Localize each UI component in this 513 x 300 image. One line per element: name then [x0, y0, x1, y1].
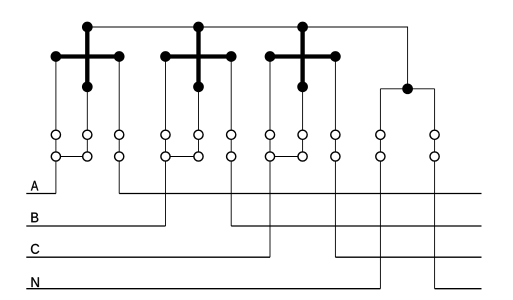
wire: voltage common rail from element tops to neutral node	[87, 27, 407, 89]
terminal: element 1 right, row 2	[115, 152, 124, 161]
wire: element 2 voltage lead	[198, 87, 200, 157]
terminal: element 3 left, row 1	[265, 130, 274, 139]
wire: element 3 left lead (phase C in)	[269, 57, 271, 258]
meter element 1 (phase A current and voltage coil cross)	[51, 22, 125, 93]
terminal: neutral right, row 1	[430, 130, 439, 139]
node label N (neutral)	[32, 277, 39, 287]
node label A (phase A)	[31, 181, 38, 191]
wire: neutral left lead (N in)	[379, 89, 381, 289]
wire: element 1 voltage lead	[86, 87, 88, 157]
terminal: neutral right, row 2	[430, 152, 439, 161]
junction: voltage common / neutral node	[402, 83, 413, 94]
terminal: element 3 middle, row 1	[298, 130, 307, 139]
terminal: element 1 middle, row 2	[83, 152, 92, 161]
wire: phase B bus (load side)	[231, 225, 481, 227]
terminal: element 2 right, row 1	[227, 130, 236, 139]
wire: element 1 right lead (phase A out)	[118, 57, 120, 194]
terminal: element 2 middle, row 2	[194, 152, 203, 161]
wire: phase A bus (load side)	[119, 193, 481, 195]
wire: element 1 left lead (phase A in)	[55, 57, 57, 194]
terminal: element 2 right, row 2	[227, 152, 236, 161]
wire: neutral right lead (N out)	[434, 89, 436, 289]
terminal: element 2 left, row 2	[161, 152, 170, 161]
wire: element 3 voltage lead	[302, 87, 304, 157]
wire: element 2 right lead (phase B out)	[230, 57, 232, 227]
wire: phase B bus (supply side)	[26, 225, 165, 227]
terminal: element 2 middle, row 1	[194, 130, 203, 139]
terminal: element 3 left, row 2	[265, 152, 274, 161]
wire: element 3 voltage link	[270, 156, 303, 158]
wire: element 2 left lead (phase B in)	[165, 57, 167, 227]
wire: neutral terminal header	[380, 88, 434, 90]
terminal: element 2 left, row 1	[161, 130, 170, 139]
terminal: neutral left, row 2	[376, 152, 385, 161]
wire: phase C bus (supply side)	[26, 256, 270, 258]
wire: phase C bus (load side)	[335, 256, 481, 258]
terminal: element 1 right, row 1	[115, 130, 124, 139]
wire: element 3 right lead (phase C out)	[334, 57, 336, 258]
terminal: element 1 left, row 2	[51, 152, 60, 161]
wire: phase A bus (supply side)	[26, 193, 56, 195]
terminal: element 3 right, row 2	[331, 152, 340, 161]
terminal: element 3 right, row 1	[331, 130, 340, 139]
wire: neutral N bus (load side)	[435, 288, 482, 290]
wire: neutral N bus (supply side)	[26, 288, 380, 290]
wire: element 1 voltage link	[56, 156, 87, 158]
terminal: neutral left, row 1	[376, 130, 385, 139]
node label B (phase B)	[31, 213, 38, 223]
meter element 2 (phase B current and voltage coil cross)	[160, 22, 236, 93]
meter element 3 (phase C current and voltage coil cross)	[265, 22, 341, 93]
terminal: element 1 left, row 1	[51, 130, 60, 139]
terminal: element 3 middle, row 2	[298, 152, 307, 161]
wire: element 2 voltage link	[166, 156, 199, 158]
terminal: element 1 middle, row 1	[83, 130, 92, 139]
node label C (phase C)	[31, 244, 39, 254]
